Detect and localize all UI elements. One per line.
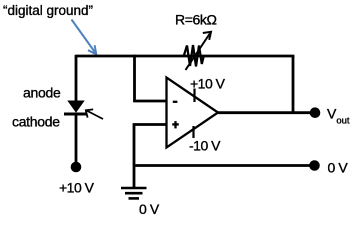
wire: photodiode to +10V terminal [75, 114, 78, 167]
svg-text:cathode: cathode [12, 114, 60, 130]
svg-text:+10 V: +10 V [190, 76, 226, 92]
svg-text:R=6kΩ: R=6kΩ [175, 12, 217, 28]
op-amp U1 triangle [167, 78, 219, 148]
wire: tap from top wire down to inverting input [135, 55, 168, 101]
wire: top horizontal (node to resistor to feedback corner) [76, 55, 294, 58]
ground symbol [121, 166, 147, 199]
svg-text:+10 V: +10 V [59, 180, 95, 196]
wire: 0V rail to terminal [134, 164, 312, 167]
svg-text:anode: anode [23, 85, 61, 101]
svg-text:Vout: Vout [327, 106, 350, 127]
photodiode D1 (anode/cathode) [64, 101, 87, 115]
wire: op-amp output to Vout terminal [218, 111, 312, 114]
op-amp minus sign [173, 101, 178, 103]
op-amp -supply pin tick [192, 126, 194, 138]
photodiode light arrow [86, 109, 103, 119]
svg-text:0 V: 0 V [328, 160, 349, 176]
Vout terminal dot [310, 107, 321, 118]
wire: feedback vertical (top wire to output) [292, 56, 295, 113]
0V terminal dot [309, 160, 320, 171]
resistor R (variable, photoresistor) [184, 45, 204, 67]
annotation arrow (blue) pointing to digital-ground node [72, 20, 97, 55]
wire: non-inverting input to ground rail [134, 125, 167, 166]
svg-text:0 V: 0 V [139, 201, 160, 217]
resistor adjustment arrow [186, 32, 212, 70]
+10V terminal dot [71, 162, 82, 173]
svg-text:“digital ground”: “digital ground” [3, 3, 93, 18]
op-amp +supply pin tick [193, 89, 195, 103]
svg-text:-10 V: -10 V [189, 138, 221, 154]
op-amp plus sign [172, 121, 179, 128]
wire: left vertical (node down to photodiode) [75, 55, 78, 102]
